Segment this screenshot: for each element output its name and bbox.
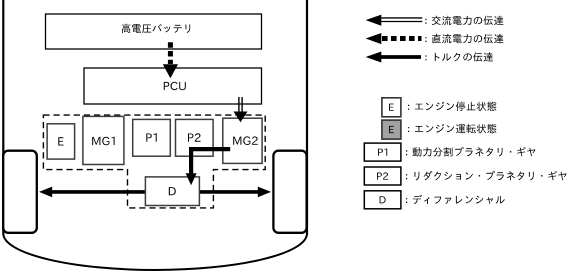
legend label 動力分割プラネタリ・ギヤ xyxy=(406,147,535,157)
DC power arrow: battery to PCU xyxy=(163,42,178,78)
legend label エンジン運転状態 xyxy=(408,124,497,134)
planetary gear P2 box xyxy=(176,119,214,156)
left wheel xyxy=(3,151,37,233)
legend P1 box xyxy=(364,143,401,161)
engine E box xyxy=(47,124,75,159)
legend label トルクの伝達 xyxy=(425,52,493,61)
torque arrow: MG2 to differential xyxy=(186,149,231,185)
wire: car body outline xyxy=(3,0,307,270)
legend engine running E box (gray) xyxy=(382,120,401,139)
legend label エンジン停止状態 xyxy=(408,102,497,112)
planetary gear P1 box xyxy=(133,119,171,156)
right wheel xyxy=(273,151,306,233)
legend engine stopped E box xyxy=(382,98,401,117)
legend DC power arrow xyxy=(366,33,422,44)
differential D box xyxy=(145,177,199,206)
legend torque arrow xyxy=(366,52,421,63)
legend P2 box xyxy=(364,167,401,185)
battery box 高電圧バッテリ xyxy=(46,14,262,49)
legend AC power arrow xyxy=(366,15,423,26)
torque arrow: differential to both wheels xyxy=(39,187,271,198)
motor-generator MG2 box xyxy=(223,118,262,163)
dashed transaxle boundary with notch around differential xyxy=(43,115,265,208)
legend label ディファレンシャル xyxy=(406,195,505,204)
AC power arrow: PCU to MG2 xyxy=(234,97,248,122)
legend label 交流電力の伝達 xyxy=(425,16,503,25)
legend label 直流電力の伝達 xyxy=(425,34,503,44)
legend D box xyxy=(364,191,401,209)
legend label リダクション・プラネタリ・ギヤ xyxy=(406,171,567,181)
PCU box xyxy=(84,68,262,104)
motor-generator MG1 box xyxy=(83,116,124,164)
